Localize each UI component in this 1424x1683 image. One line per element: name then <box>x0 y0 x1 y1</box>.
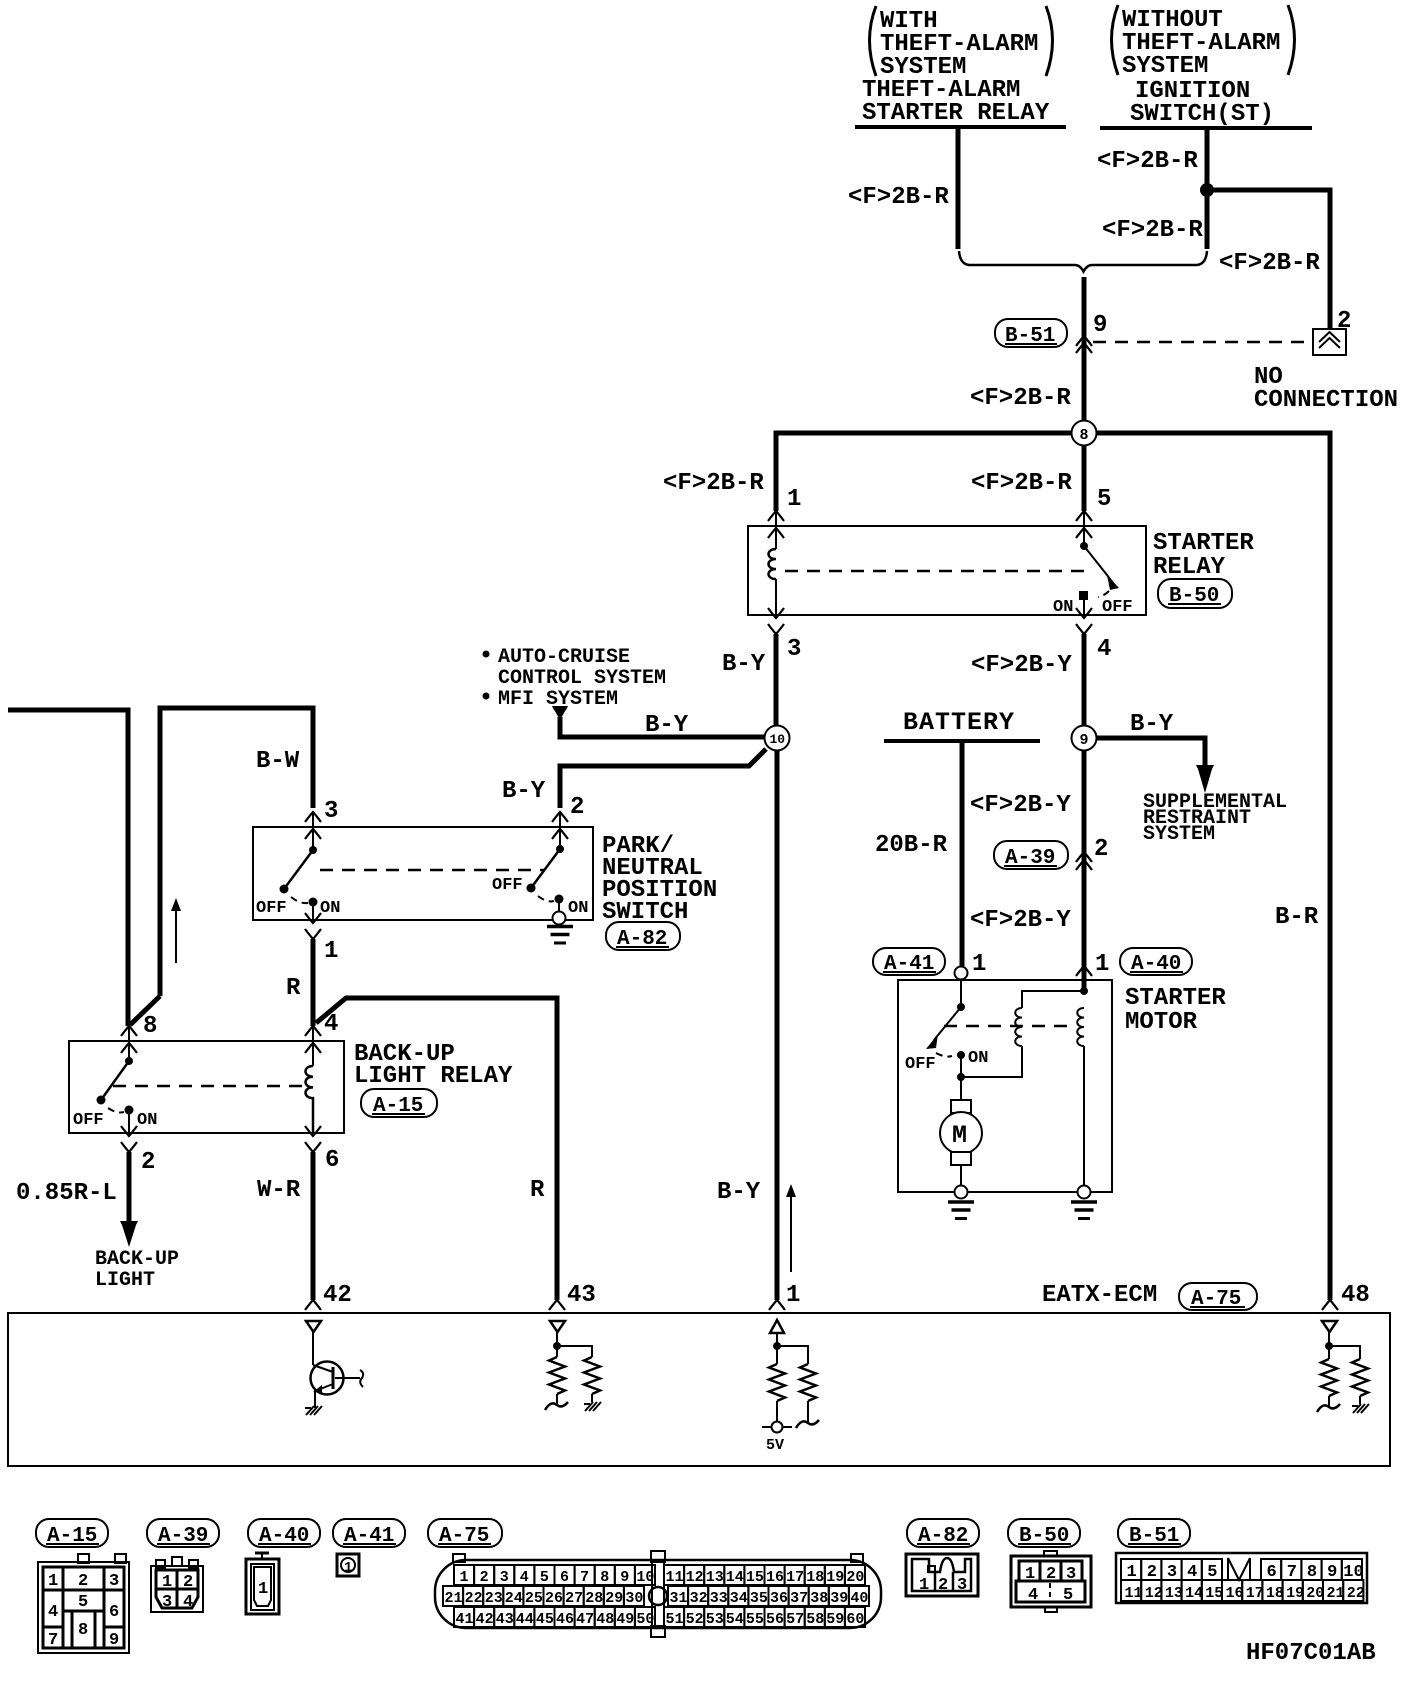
svg-text:25: 25 <box>525 1590 543 1607</box>
svg-text:8: 8 <box>1080 427 1089 444</box>
svg-text:2: 2 <box>78 1572 88 1591</box>
svg-text:2: 2 <box>570 794 584 821</box>
back-up light relay box A-15 <box>69 1041 344 1133</box>
svg-text:58: 58 <box>806 1611 824 1628</box>
A-41 pin circle <box>955 967 968 980</box>
park/neutral position switch box A-82 <box>253 827 593 920</box>
svg-text:22: 22 <box>465 1590 483 1607</box>
svg-text:<F>2B-R: <F>2B-R <box>970 385 1071 412</box>
wire from ignition switch <box>1205 130 1210 249</box>
svg-text:ON: ON <box>968 1049 988 1068</box>
svg-text:50: 50 <box>636 1611 654 1628</box>
svg-text:18: 18 <box>1266 1585 1284 1602</box>
svg-text:2: 2 <box>1046 1565 1056 1584</box>
svg-text:60: 60 <box>846 1611 864 1628</box>
svg-text:B-W: B-W <box>256 748 300 775</box>
pin 48 resistors <box>1317 1332 1368 1412</box>
relay internal dashed link <box>785 570 1093 573</box>
wire pin 6 down to ECM pin 42 <box>311 1152 316 1300</box>
svg-text:15: 15 <box>1205 1585 1223 1602</box>
PNP pin 2 chevrons <box>552 812 568 822</box>
svg-text:2: 2 <box>183 1573 193 1592</box>
svg-text:10: 10 <box>636 1569 654 1586</box>
svg-text:4: 4 <box>1097 636 1111 663</box>
svg-text:49: 49 <box>616 1611 634 1628</box>
PNP right switch <box>492 845 588 918</box>
svg-text:32: 32 <box>690 1590 708 1607</box>
svg-text:56: 56 <box>766 1611 784 1628</box>
pin 42 input triangle <box>306 1321 321 1332</box>
svg-text:39: 39 <box>830 1590 848 1607</box>
svg-text:BACK-UP: BACK-UP <box>95 1248 179 1271</box>
ECM pin 43 chevron <box>549 1300 565 1310</box>
pin 1 input triangle (up) <box>770 1320 784 1333</box>
svg-text:1: 1 <box>972 951 986 978</box>
svg-text:47: 47 <box>576 1611 594 1628</box>
label BATTERY <box>884 708 1040 741</box>
svg-text:3: 3 <box>162 1593 172 1612</box>
svg-text:SYSTEM: SYSTEM <box>1143 823 1215 846</box>
svg-text:<F>2B-R: <F>2B-R <box>848 184 949 211</box>
pin 8 chevrons <box>121 1026 137 1036</box>
svg-text:42: 42 <box>323 1282 352 1309</box>
svg-text:16: 16 <box>1226 1585 1244 1602</box>
dashed line to no-connection <box>1093 341 1311 344</box>
hold-in coil <box>1077 1008 1084 1046</box>
pin 43 input triangle <box>550 1321 565 1332</box>
svg-text:ON: ON <box>320 899 340 918</box>
svg-text:B-Y: B-Y <box>645 712 689 739</box>
svg-text:OFF: OFF <box>256 899 287 918</box>
svg-text:53: 53 <box>706 1611 724 1628</box>
svg-text:M: M <box>952 1121 968 1150</box>
stadium label A-41 <box>873 948 945 976</box>
pull-in coil <box>1015 1008 1022 1046</box>
svg-text:29: 29 <box>605 1590 623 1607</box>
diagonal joining pin 8 <box>130 996 160 1025</box>
svg-text:6: 6 <box>560 1569 569 1586</box>
svg-text:3: 3 <box>957 1576 967 1595</box>
svg-text:7: 7 <box>580 1569 589 1586</box>
svg-text:23: 23 <box>485 1590 503 1607</box>
svg-text:SWITCH(ST): SWITCH(ST) <box>1130 101 1274 128</box>
svg-text:1: 1 <box>787 486 801 513</box>
svg-text:4: 4 <box>324 1011 338 1038</box>
svg-text:1: 1 <box>344 1560 352 1576</box>
PNP switch internal dashed link <box>320 869 545 872</box>
svg-text:18: 18 <box>806 1569 824 1586</box>
motor ground circle left <box>955 1186 968 1199</box>
svg-text:31: 31 <box>670 1590 688 1607</box>
svg-text:ON: ON <box>568 899 588 918</box>
motor M <box>940 1077 982 1186</box>
svg-text:17: 17 <box>1246 1585 1264 1602</box>
pin 48 input triangle <box>1322 1321 1337 1332</box>
arrow from auto-cruise systems <box>552 706 568 720</box>
junction circle 9 <box>1072 726 1097 751</box>
EATX-ECM box <box>8 1313 1390 1466</box>
svg-text:13: 13 <box>1165 1585 1183 1602</box>
svg-text:16: 16 <box>766 1569 784 1586</box>
back-up relay coil <box>306 1066 314 1133</box>
svg-text:5: 5 <box>78 1593 88 1612</box>
relay coil <box>769 549 777 579</box>
svg-text:36: 36 <box>770 1590 788 1607</box>
svg-text:STARTER: STARTER <box>1153 530 1254 557</box>
svg-text:R: R <box>286 975 301 1002</box>
svg-text:48: 48 <box>1341 1282 1370 1309</box>
arrowhead to supplemental restraint <box>1196 765 1214 793</box>
svg-text:21: 21 <box>1327 1585 1345 1602</box>
svg-text:57: 57 <box>786 1611 804 1628</box>
svg-text:11: 11 <box>1125 1585 1143 1602</box>
relay ON contact square <box>1079 591 1088 600</box>
svg-text:OFF: OFF <box>492 876 523 895</box>
wire ECM pin 43 up over to back-up relay pin 4 <box>316 998 557 1300</box>
svg-text:4: 4 <box>183 1593 193 1612</box>
ground right <box>1071 1202 1097 1219</box>
svg-text:12: 12 <box>686 1569 704 1586</box>
svg-text:21: 21 <box>445 1590 463 1607</box>
svg-text:2: 2 <box>480 1569 489 1586</box>
svg-text:10: 10 <box>770 732 786 747</box>
svg-text:20B-R: 20B-R <box>875 832 948 859</box>
A-40 pin chevrons <box>1076 966 1092 976</box>
svg-text:51: 51 <box>666 1611 684 1628</box>
svg-text:27: 27 <box>565 1590 583 1607</box>
stadium label A-75 <box>1179 1283 1257 1311</box>
svg-text:MOTOR: MOTOR <box>1125 1009 1198 1036</box>
svg-text:LIGHT: LIGHT <box>95 1269 155 1292</box>
connector A-15 label <box>36 1519 108 1548</box>
svg-text:AUTO-CRUISE: AUTO-CRUISE <box>498 646 630 669</box>
wire coil to pin 3 <box>775 579 777 615</box>
svg-text:<F>2B-R: <F>2B-R <box>1219 250 1320 277</box>
svg-text:22: 22 <box>1347 1585 1365 1602</box>
starter relay box B-50 <box>748 526 1146 615</box>
connector B-51 face <box>1116 1553 1367 1603</box>
svg-text:R: R <box>530 1177 545 1204</box>
svg-text:45: 45 <box>536 1611 554 1628</box>
ECM pin 48 chevron <box>1322 1300 1338 1310</box>
svg-text:9: 9 <box>620 1569 629 1586</box>
svg-text:6: 6 <box>325 1147 339 1174</box>
svg-text:<F>2B-R: <F>2B-R <box>663 470 764 497</box>
svg-text:3: 3 <box>324 798 338 825</box>
connector B-51 label <box>1118 1519 1190 1548</box>
svg-text:28: 28 <box>585 1590 603 1607</box>
PNP left switch <box>256 846 340 920</box>
motor switch <box>905 980 988 1081</box>
svg-text:37: 37 <box>790 1590 808 1607</box>
starter motor box <box>898 980 1112 1192</box>
connector A-82 face <box>906 1554 978 1596</box>
svg-text:8: 8 <box>143 1013 157 1040</box>
wire junction 8 to relay pin 5 <box>1082 446 1087 511</box>
wire junction 10 down to ECM pin 1 <box>775 750 780 1300</box>
ground left <box>948 1202 974 1219</box>
stadium label A-39 <box>994 841 1068 870</box>
wire pin 3 to junction 10 <box>774 634 779 726</box>
svg-text:43: 43 <box>496 1611 514 1628</box>
stadium label A-82 <box>606 922 680 951</box>
relay arm dashed arc <box>1098 591 1109 597</box>
PNP pin 3 chevrons <box>305 812 321 822</box>
svg-text:19: 19 <box>826 1569 844 1586</box>
wire PNP pin 1 down to back-up relay pin 4 <box>311 939 316 1026</box>
svg-text:9: 9 <box>1093 312 1107 339</box>
direction arrow up (bottom) <box>786 1184 796 1272</box>
svg-text:2: 2 <box>141 1149 155 1176</box>
svg-text:LIGHT RELAY: LIGHT RELAY <box>354 1063 513 1090</box>
PNP ground circle pin <box>553 912 566 925</box>
connector A-39 pin 2 chevrons <box>1076 852 1092 862</box>
stadium label B-51 <box>995 319 1067 348</box>
connector A-39 label <box>147 1519 219 1548</box>
connector A-41 face <box>337 1554 359 1576</box>
junction dot on ignition wire <box>1200 183 1214 197</box>
svg-text:5: 5 <box>1063 1586 1073 1605</box>
pin 4 chevrons <box>1076 608 1092 618</box>
svg-text:19: 19 <box>1286 1585 1304 1602</box>
svg-text:4: 4 <box>1028 1586 1038 1605</box>
pin 2 chevrons <box>121 1126 137 1136</box>
svg-text:26: 26 <box>545 1590 563 1607</box>
svg-text:38: 38 <box>810 1590 828 1607</box>
svg-text:4: 4 <box>48 1603 58 1622</box>
wire to no-connection pin <box>1207 190 1330 328</box>
svg-text:OFF: OFF <box>1102 598 1133 617</box>
svg-text:33: 33 <box>710 1590 728 1607</box>
pin 1 chevrons <box>768 511 784 521</box>
svg-text:52: 52 <box>686 1611 704 1628</box>
motor dashed link <box>944 1025 1075 1028</box>
svg-text:1: 1 <box>919 1576 929 1595</box>
ECM pin 1 chevron <box>769 1300 785 1310</box>
svg-text:12: 12 <box>1145 1585 1163 1602</box>
connector A-41 label <box>333 1519 405 1548</box>
connector A-40 face <box>246 1553 279 1614</box>
main bus wire y=433 <box>776 433 1330 1300</box>
wire from left page edge to back-up relay pin 8 <box>8 710 128 1026</box>
PNP pin 1 chevrons <box>305 913 321 923</box>
svg-text:14: 14 <box>1185 1585 1203 1602</box>
no connection box with chevrons <box>1313 329 1346 355</box>
svg-text:13: 13 <box>706 1569 724 1586</box>
wire junction 10 branch to PNP pin 2 <box>560 749 766 808</box>
svg-text:OFF: OFF <box>73 1111 104 1130</box>
svg-text:35: 35 <box>750 1590 768 1607</box>
svg-text:42: 42 <box>476 1611 494 1628</box>
svg-text:43: 43 <box>567 1282 596 1309</box>
svg-text:2: 2 <box>1337 308 1351 335</box>
svg-text:1: 1 <box>48 1572 58 1591</box>
svg-text:<F>2B-R: <F>2B-R <box>971 470 1072 497</box>
transistor Q (pin 42) <box>311 1332 364 1408</box>
svg-text:7: 7 <box>48 1631 58 1650</box>
pin 48 chassis ground <box>1352 1404 1369 1413</box>
svg-text:1: 1 <box>786 1282 800 1309</box>
svg-text:34: 34 <box>730 1590 748 1607</box>
svg-text:55: 55 <box>746 1611 764 1628</box>
junction circle 8 <box>1072 421 1097 446</box>
svg-text:30: 30 <box>625 1590 643 1607</box>
junction circle 10 <box>765 726 790 751</box>
svg-text:59: 59 <box>826 1611 844 1628</box>
svg-text:9: 9 <box>109 1631 119 1650</box>
relay switch arm <box>1084 546 1113 583</box>
pin 1 resistors and 5V <box>762 1333 819 1454</box>
svg-text:4: 4 <box>520 1569 529 1586</box>
svg-text:1: 1 <box>1025 1565 1035 1584</box>
wire A-40 pin into box <box>1082 963 1087 991</box>
svg-text:15: 15 <box>746 1569 764 1586</box>
pin 6 chevrons <box>305 1126 321 1136</box>
brace joining the two wires <box>959 251 1207 272</box>
transistor chassis ground <box>305 1406 322 1415</box>
svg-text:5V: 5V <box>766 1437 784 1454</box>
svg-text:5: 5 <box>540 1569 549 1586</box>
back-up relay switch <box>73 1057 157 1136</box>
pin 4 chevrons <box>305 1026 321 1036</box>
svg-text:CONTROL SYSTEM: CONTROL SYSTEM <box>498 667 666 690</box>
wire pin 4 to junction 9 <box>1082 634 1087 726</box>
wire auto-cruise to junction 10 <box>560 717 765 737</box>
pin 43 resistors <box>545 1332 600 1410</box>
pin 3 chevrons <box>768 608 784 618</box>
svg-text:6: 6 <box>109 1603 119 1622</box>
svg-text:44: 44 <box>516 1611 534 1628</box>
svg-text:STARTER: STARTER <box>1125 985 1226 1012</box>
svg-text:0.85R-L: 0.85R-L <box>16 1180 117 1207</box>
svg-text:HF07C01AB: HF07C01AB <box>1246 1640 1376 1667</box>
connector A-39 face <box>151 1557 203 1612</box>
svg-text:54: 54 <box>726 1611 744 1628</box>
svg-text:<F>2B-R: <F>2B-R <box>1097 148 1198 175</box>
svg-text:24: 24 <box>505 1590 523 1607</box>
back-up relay dashed link <box>113 1085 303 1088</box>
svg-text:3: 3 <box>1066 1565 1076 1584</box>
header: WITHOUT THEFT-ALARM SYSTEM / IGNITION SWITCH(ST) <box>1100 5 1312 128</box>
svg-text:RELAY: RELAY <box>1153 554 1226 581</box>
stadium label A-15 <box>361 1089 437 1118</box>
connector A-40 label <box>248 1519 320 1548</box>
svg-text:11: 11 <box>666 1569 684 1586</box>
direction arrow up (left) <box>171 898 181 963</box>
pin 5 chevrons <box>1076 511 1092 521</box>
connector A-75 face <box>435 1551 881 1637</box>
connector B-50 label <box>1008 1519 1080 1548</box>
connector A-82 label <box>907 1519 979 1548</box>
wire battery down to A-41 <box>960 743 965 966</box>
svg-text:1: 1 <box>1095 951 1109 978</box>
wire from brace to junction 8 <box>1082 277 1087 433</box>
svg-text:<F>2B-R: <F>2B-R <box>1102 217 1203 244</box>
connector A-15 face <box>38 1554 129 1653</box>
svg-text:1: 1 <box>258 1580 268 1599</box>
ground below PNP <box>547 927 573 944</box>
svg-text:5: 5 <box>1097 486 1111 513</box>
svg-text:2: 2 <box>1094 836 1108 863</box>
svg-text:14: 14 <box>726 1569 744 1586</box>
header: WITH THEFT-ALARM SYSTEM / THEFT-ALARM STARTER RELAY <box>855 6 1066 127</box>
connector B-51 pin 9 chevron on wire <box>1076 336 1092 346</box>
svg-text:B-R: B-R <box>1275 904 1319 931</box>
svg-text:ON: ON <box>1053 598 1073 617</box>
auto-cruise / MFI source labels <box>483 646 667 711</box>
connector B-50 face <box>1011 1551 1091 1612</box>
wire loop to PNP pin 3 <box>160 708 313 996</box>
svg-text:20: 20 <box>1306 1585 1324 1602</box>
motor internal link wire <box>961 991 1084 1077</box>
wire junction 9 to supplemental restraint <box>1096 738 1205 768</box>
stadium label B-50 <box>1158 579 1232 608</box>
motor ground circle right <box>1078 1186 1091 1199</box>
svg-text:3: 3 <box>500 1569 509 1586</box>
svg-text:2: 2 <box>938 1576 948 1595</box>
svg-text:41: 41 <box>456 1611 474 1628</box>
svg-text:<F>2B-Y: <F>2B-Y <box>970 792 1071 819</box>
svg-text:3: 3 <box>109 1572 119 1591</box>
svg-text:B-Y: B-Y <box>717 1179 761 1206</box>
svg-text:20: 20 <box>846 1569 864 1586</box>
svg-text:B-Y: B-Y <box>502 778 546 805</box>
svg-text:BATTERY: BATTERY <box>903 708 1015 737</box>
svg-text:B-Y: B-Y <box>722 651 766 678</box>
wire hold-in coil to ground <box>1083 1046 1085 1186</box>
wire square to pin 4 <box>1083 600 1085 615</box>
svg-text:EATX-ECM: EATX-ECM <box>1042 1282 1157 1309</box>
wire from theft-alarm starter relay <box>956 129 961 249</box>
svg-text:CONNECTION: CONNECTION <box>1254 387 1398 414</box>
wire junction 9 down to starter motor <box>1082 750 1087 963</box>
svg-text:17: 17 <box>786 1569 804 1586</box>
svg-text:1: 1 <box>162 1573 172 1592</box>
svg-text:9: 9 <box>1080 732 1089 749</box>
svg-text:<F>2B-Y: <F>2B-Y <box>971 652 1072 679</box>
wire pin 2 to back-up light with arrow <box>120 1152 138 1247</box>
svg-text:SYSTEM: SYSTEM <box>1122 53 1208 80</box>
svg-text:OFF: OFF <box>905 1055 936 1074</box>
stadium label A-40 <box>1120 948 1192 976</box>
svg-text:46: 46 <box>556 1611 574 1628</box>
ECM pin 42 chevron <box>305 1300 321 1310</box>
svg-text:3: 3 <box>787 636 801 663</box>
pin 43 chassis ground <box>584 1402 601 1411</box>
svg-text:1: 1 <box>460 1569 469 1586</box>
svg-text:B-Y: B-Y <box>1130 711 1174 738</box>
svg-text:48: 48 <box>596 1611 614 1628</box>
svg-text:STARTER RELAY: STARTER RELAY <box>862 100 1050 127</box>
svg-text:<F>2B-Y: <F>2B-Y <box>970 907 1071 934</box>
relay switch contact top <box>1080 542 1088 550</box>
svg-text:8: 8 <box>78 1621 88 1640</box>
svg-text:ON: ON <box>137 1111 157 1130</box>
svg-text:W-R: W-R <box>257 1177 301 1204</box>
connector A-75 label <box>428 1519 502 1548</box>
svg-text:8: 8 <box>600 1569 609 1586</box>
svg-text:1: 1 <box>324 938 338 965</box>
svg-text:40: 40 <box>850 1590 868 1607</box>
